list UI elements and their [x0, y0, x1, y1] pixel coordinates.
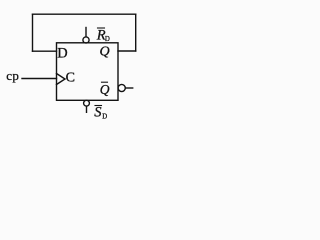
- svg-text:D: D: [102, 113, 107, 120]
- overbar of Qbar label: [102, 81, 108, 83]
- svg-text:C: C: [66, 71, 75, 86]
- svg-text:S: S: [94, 104, 102, 120]
- wire Q output to feedback: [118, 50, 136, 52]
- svg-text:Q: Q: [100, 82, 110, 97]
- wire cp to clock input: [22, 78, 57, 80]
- svg-text:Q: Q: [100, 45, 110, 60]
- svg-text:cp: cp: [6, 68, 19, 83]
- inversion bubble Qbar output: [118, 84, 125, 91]
- overbar of R label: [98, 27, 105, 29]
- wire feedback top horizontal: [33, 13, 136, 15]
- wire feedback right vertical: [135, 14, 137, 51]
- inversion bubble R input: [83, 37, 89, 43]
- pin stub R input: [85, 28, 87, 37]
- overbar of S label: [95, 105, 102, 107]
- inversion bubble S input: [84, 100, 90, 106]
- svg-text:D: D: [57, 45, 67, 61]
- clock edge triangle: [57, 74, 66, 85]
- pin stub Qbar output: [125, 87, 132, 89]
- svg-text:D: D: [105, 36, 110, 43]
- wire feedback to D input: [33, 50, 57, 52]
- pin stub S input: [86, 106, 88, 112]
- flip-flop U1 body: [57, 43, 119, 101]
- wire feedback left vertical: [32, 14, 34, 51]
